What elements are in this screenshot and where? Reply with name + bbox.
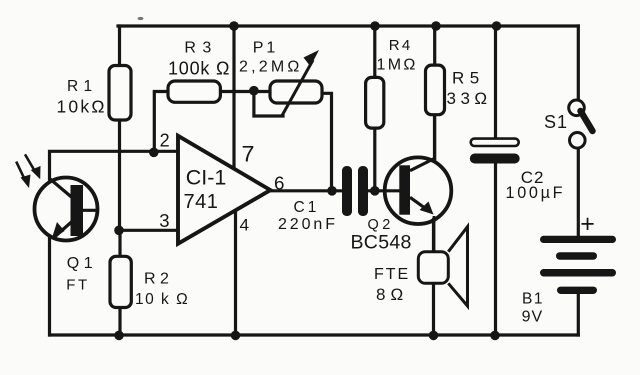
svg-text:R 1: R 1 <box>67 78 93 95</box>
svg-text:FT: FT <box>66 277 89 294</box>
svg-text:7: 7 <box>242 142 255 167</box>
svg-text:10 k Ω: 10 k Ω <box>135 291 189 308</box>
svg-text:2,2MΩ: 2,2MΩ <box>239 59 303 76</box>
svg-text:BC548: BC548 <box>351 232 412 254</box>
svg-text:R 3: R 3 <box>184 39 212 56</box>
svg-text:R5: R5 <box>452 68 485 87</box>
svg-text:1MΩ: 1MΩ <box>377 57 418 74</box>
svg-text:33Ω: 33Ω <box>447 89 492 108</box>
svg-text:C1: C1 <box>294 199 320 216</box>
svg-text:B1: B1 <box>522 291 544 308</box>
svg-text:FTE: FTE <box>374 266 410 283</box>
svg-text:2: 2 <box>160 131 170 151</box>
svg-text:100k Ω: 100k Ω <box>168 59 230 79</box>
svg-text:100µF: 100µF <box>506 184 566 202</box>
svg-text:+: + <box>580 210 595 238</box>
svg-text:Q 1: Q 1 <box>67 255 93 272</box>
svg-text:P1: P1 <box>253 39 279 56</box>
svg-text:741: 741 <box>184 191 219 213</box>
svg-text:8Ω: 8Ω <box>376 285 408 304</box>
svg-text:10kΩ: 10kΩ <box>57 96 107 116</box>
svg-text:S1: S1 <box>544 112 568 132</box>
svg-text:3: 3 <box>159 210 169 231</box>
svg-text:CI-1: CI-1 <box>186 166 227 190</box>
svg-text:R4: R4 <box>389 37 413 54</box>
svg-text:220nF: 220nF <box>278 216 338 233</box>
svg-text:4: 4 <box>240 217 250 235</box>
svg-text:6: 6 <box>274 172 284 193</box>
svg-text:R2: R2 <box>144 270 173 287</box>
svg-text:Q2: Q2 <box>368 217 394 233</box>
svg-text:9V: 9V <box>522 309 544 326</box>
